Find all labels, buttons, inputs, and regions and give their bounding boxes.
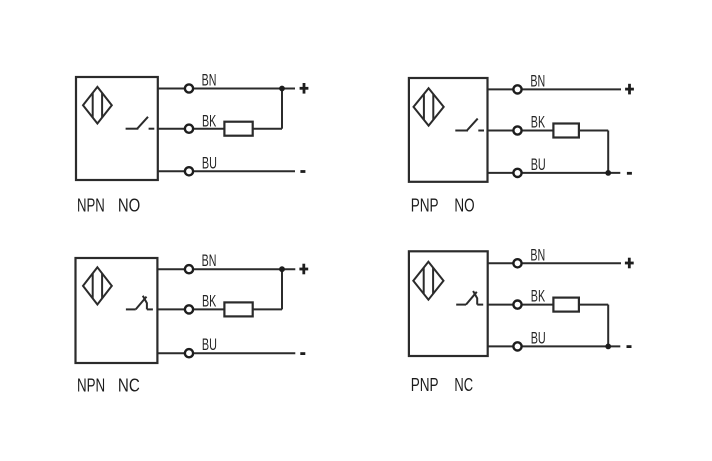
svg-text:NPN: NPN [77,196,105,216]
svg-text:BN: BN [202,251,217,270]
svg-text:BU: BU [531,328,546,347]
svg-text:BN: BN [530,71,545,90]
svg-text:NO: NO [118,196,140,216]
svg-text:NC: NC [118,376,140,396]
svg-text:BK: BK [202,292,217,311]
svg-text:BN: BN [530,245,545,264]
svg-text:BU: BU [202,335,217,354]
svg-text:BK: BK [531,287,546,306]
svg-text:BU: BU [202,153,217,172]
svg-text:NC: NC [454,375,473,395]
svg-text:BK: BK [531,113,546,132]
svg-text:BN: BN [202,70,217,89]
svg-text:PNP: PNP [411,375,439,395]
svg-text:BU: BU [531,155,546,174]
svg-text:PNP: PNP [411,195,439,215]
svg-text:BK: BK [202,111,217,130]
svg-text:NO: NO [454,195,474,215]
svg-text:NPN: NPN [77,376,105,396]
